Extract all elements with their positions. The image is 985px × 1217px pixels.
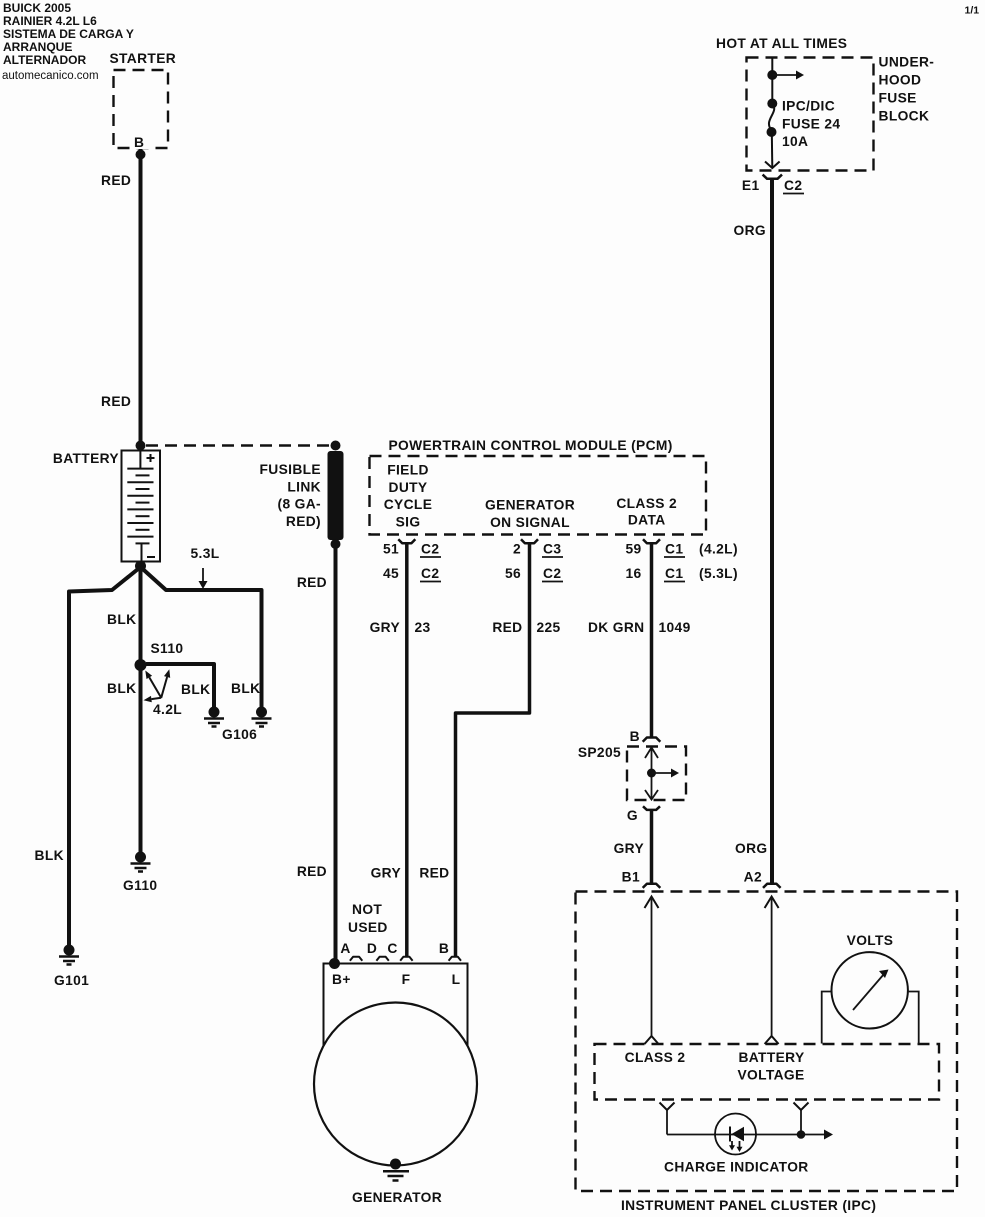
svg-text:BLK: BLK [35,848,64,863]
svg-text:1/1: 1/1 [965,5,980,17]
svg-text:SISTEMA DE CARGA Y: SISTEMA DE CARGA Y [3,27,134,41]
svg-text:D: D [367,941,377,956]
svg-text:RED: RED [297,864,327,879]
svg-text:B: B [439,941,449,956]
svg-text:CYCLE: CYCLE [384,497,433,512]
svg-text:SIG: SIG [396,514,421,529]
svg-text:51: 51 [383,542,399,557]
svg-text:C1: C1 [665,542,683,557]
svg-text:2: 2 [513,542,521,557]
svg-text:FUSIBLE: FUSIBLE [260,462,321,477]
svg-text:BUICK 2005: BUICK 2005 [3,1,71,15]
svg-text:(8 GA-: (8 GA- [278,497,322,512]
svg-text:CLASS 2: CLASS 2 [616,496,677,511]
svg-text:RED: RED [297,575,327,590]
svg-text:BATTERY: BATTERY [738,1050,804,1065]
svg-text:RED: RED [419,866,449,881]
svg-text:B: B [134,135,144,150]
svg-text:automecanico.com: automecanico.com [2,70,99,82]
svg-text:NOT: NOT [352,902,382,917]
svg-text:C2: C2 [784,178,802,193]
svg-text:BLK: BLK [231,681,260,696]
svg-text:59: 59 [625,542,641,557]
svg-text:16: 16 [625,566,641,581]
svg-text:USED: USED [348,920,388,935]
svg-text:B1: B1 [622,870,640,885]
svg-text:RED: RED [101,394,131,409]
svg-text:BLK: BLK [107,681,136,696]
svg-text:G101: G101 [54,973,89,988]
svg-text:56: 56 [505,566,521,581]
svg-text:POWERTRAIN CONTROL MODULE (PCM: POWERTRAIN CONTROL MODULE (PCM) [389,438,673,453]
svg-text:RED: RED [492,620,522,635]
svg-text:10A: 10A [782,134,808,149]
svg-text:FUSE: FUSE [879,91,917,106]
svg-text:225: 225 [537,620,561,635]
svg-text:(4.2L): (4.2L) [699,542,738,557]
svg-text:INSTRUMENT PANEL CLUSTER (IPC): INSTRUMENT PANEL CLUSTER (IPC) [621,1198,876,1213]
svg-text:C2: C2 [421,542,439,557]
svg-text:G106: G106 [222,727,257,742]
svg-text:SP205: SP205 [578,745,621,760]
svg-text:CHARGE INDICATOR: CHARGE INDICATOR [664,1160,809,1175]
svg-text:STARTER: STARTER [110,51,177,66]
svg-text:G: G [627,808,638,823]
svg-text:DATA: DATA [628,513,666,528]
svg-text:4.2L: 4.2L [153,702,182,717]
svg-text:RED): RED) [286,514,321,529]
svg-text:GRY: GRY [371,866,401,881]
svg-text:RAINIER 4.2L L6: RAINIER 4.2L L6 [3,14,97,28]
svg-text:S110: S110 [151,641,184,656]
svg-text:L: L [452,972,461,987]
svg-text:1049: 1049 [659,620,691,635]
svg-text:LINK: LINK [287,479,321,494]
svg-text:C2: C2 [543,566,561,581]
svg-text:BATTERY: BATTERY [53,451,119,466]
svg-text:B: B [630,729,640,744]
svg-text:C: C [387,941,397,956]
svg-text:C2: C2 [421,566,439,581]
svg-text:5.3L: 5.3L [191,546,220,561]
svg-text:BLK: BLK [107,612,136,627]
svg-text:VOLTAGE: VOLTAGE [737,1067,804,1082]
svg-text:ORG: ORG [734,223,766,238]
svg-text:GENERATOR: GENERATOR [352,1190,442,1205]
svg-text:A: A [340,941,350,956]
svg-text:C3: C3 [543,542,561,557]
svg-text:RED: RED [101,173,131,188]
svg-text:GRY: GRY [614,841,644,856]
svg-text:FUSE 24: FUSE 24 [782,117,840,132]
svg-text:C1: C1 [665,566,683,581]
svg-text:DK GRN: DK GRN [588,620,645,635]
svg-text:E1: E1 [742,178,760,193]
svg-text:23: 23 [415,620,431,635]
svg-text:BLK: BLK [181,682,210,697]
svg-text:FIELD: FIELD [387,463,429,478]
svg-text:DUTY: DUTY [389,480,428,495]
svg-text:BLOCK: BLOCK [879,109,930,124]
svg-text:G110: G110 [123,878,157,893]
svg-text:HOOD: HOOD [879,73,922,88]
svg-text:GENERATOR: GENERATOR [485,498,575,513]
svg-text:UNDER-: UNDER- [879,55,935,70]
svg-text:ALTERNADOR: ALTERNADOR [3,53,86,67]
svg-text:ORG: ORG [735,841,767,856]
svg-text:F: F [402,972,411,987]
svg-text:VOLTS: VOLTS [847,933,894,948]
svg-text:IPC/DIC: IPC/DIC [782,99,835,114]
svg-text:A2: A2 [744,870,762,885]
svg-text:HOT AT ALL TIMES: HOT AT ALL TIMES [716,36,847,51]
svg-text:CLASS 2: CLASS 2 [625,1050,686,1065]
svg-text:ARRANQUE: ARRANQUE [3,40,72,54]
svg-text:ON SIGNAL: ON SIGNAL [490,515,570,530]
svg-text:(5.3L): (5.3L) [699,566,738,581]
svg-text:45: 45 [383,566,399,581]
svg-text:GRY: GRY [370,620,400,635]
svg-text:B+: B+ [332,972,351,987]
